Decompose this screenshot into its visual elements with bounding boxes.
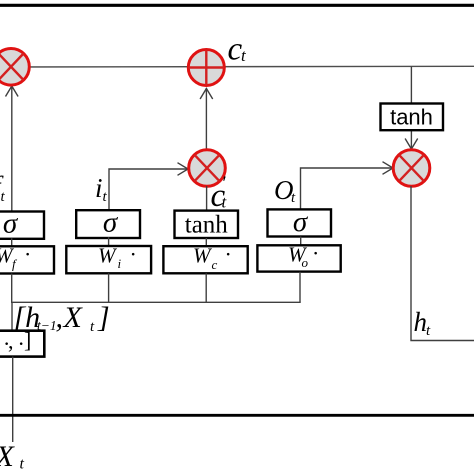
wire: top boundary thick line — [0, 4, 474, 7]
svg-text:tanh: tanh — [185, 212, 229, 239]
multiplier gate X1 (forget gate product) — [0, 49, 29, 86]
sigma box 1 (forget gate, cut at left) — [0, 208, 44, 240]
tanh activation box (sans, right) — [381, 104, 444, 131]
label X_t — [0, 440, 25, 473]
svg-text:i: i — [95, 173, 103, 203]
wire: stub sigma3 to Wo box — [300, 237, 302, 246]
svg-text:t: t — [20, 456, 25, 473]
tanh activation box (serif, candidate cell) — [175, 211, 239, 239]
svg-text:σ: σ — [293, 206, 309, 238]
svg-text:·: · — [24, 242, 31, 267]
label i_t — [95, 173, 108, 205]
svg-text:·: · — [130, 242, 137, 267]
weight box Wf (cut at left) — [0, 242, 54, 274]
wire: arrow from tanh down into multiplier X3 — [405, 131, 418, 150]
svg-text:]: ] — [24, 328, 31, 353]
wire: stub tanh to Wc box — [205, 238, 207, 246]
wire: stub from multiplier X2 down to tanh box — [206, 186, 208, 211]
weight box Wi — [66, 242, 151, 274]
wire: arrow from multiplier X2 up into adder gate — [200, 88, 213, 150]
svg-text:W: W — [193, 244, 213, 268]
weight box Wc — [163, 242, 247, 274]
sigma box 3 (output gate) — [268, 206, 332, 238]
wire: from concat box down to X_t input — [12, 357, 14, 442]
label f_t (cut off at left edge) — [0, 171, 6, 205]
adder gate (plus circle) — [188, 50, 224, 86]
multiplier gate X2 (input gate product) — [189, 150, 226, 187]
wire: cell state line c (horizontal) — [0, 65, 474, 68]
label [h_t-1, X_t] — [14, 301, 110, 335]
svg-text:·: · — [312, 241, 319, 266]
wire: concat bus horizontal — [11, 301, 301, 303]
svg-text:·: · — [225, 242, 232, 267]
wire: arrow from sigma (forget) up into multiplier gate — [6, 86, 19, 211]
multiplier gate X3 (output gate product) — [393, 150, 430, 187]
svg-text:]: ] — [97, 301, 110, 334]
svg-text:h: h — [414, 307, 428, 337]
wire: output h down then right — [411, 186, 474, 341]
svg-text:′: ′ — [223, 173, 227, 194]
svg-text:i: i — [118, 256, 122, 271]
weight box Wo — [257, 241, 340, 272]
svg-text:c: c — [212, 257, 218, 272]
svg-text:W: W — [98, 244, 118, 268]
svg-text:,: , — [8, 329, 14, 354]
label c_t — [228, 32, 248, 68]
label h_t — [414, 307, 432, 339]
wire: stub Wo down to concat bus — [299, 272, 301, 303]
wire: from concat bus down to concat box — [11, 302, 13, 330]
wire: stub Wf down to concat bus — [11, 274, 13, 303]
wire: stub Wc down to concat bus — [205, 273, 207, 302]
wire: stub sigma2 to Wi box — [108, 237, 110, 246]
label c'_t — [211, 173, 228, 214]
wire: arrow corner from sigma (output) to multiplier X3 — [301, 162, 394, 210]
sigma box 2 (input gate) — [76, 207, 140, 239]
svg-text:o: o — [302, 255, 309, 270]
wire: arrow corner from sigma (input) to multiplier X2 — [109, 163, 188, 211]
wire: bottom boundary thick line — [0, 414, 474, 417]
svg-text:σ: σ — [103, 207, 119, 239]
concat box [.,.] (cut at left) — [0, 328, 44, 357]
wire: stub Wi down to concat bus — [108, 273, 110, 302]
svg-text:σ: σ — [3, 208, 19, 240]
svg-text:X: X — [0, 440, 16, 473]
wire: branch from cell state line down to tanh box — [410, 67, 412, 104]
label O_t — [274, 175, 296, 206]
wire: stub sigma1 to Wf box — [11, 238, 13, 246]
svg-text:tanh: tanh — [390, 105, 433, 130]
svg-text:,: , — [56, 301, 64, 334]
svg-text:X: X — [63, 301, 84, 334]
